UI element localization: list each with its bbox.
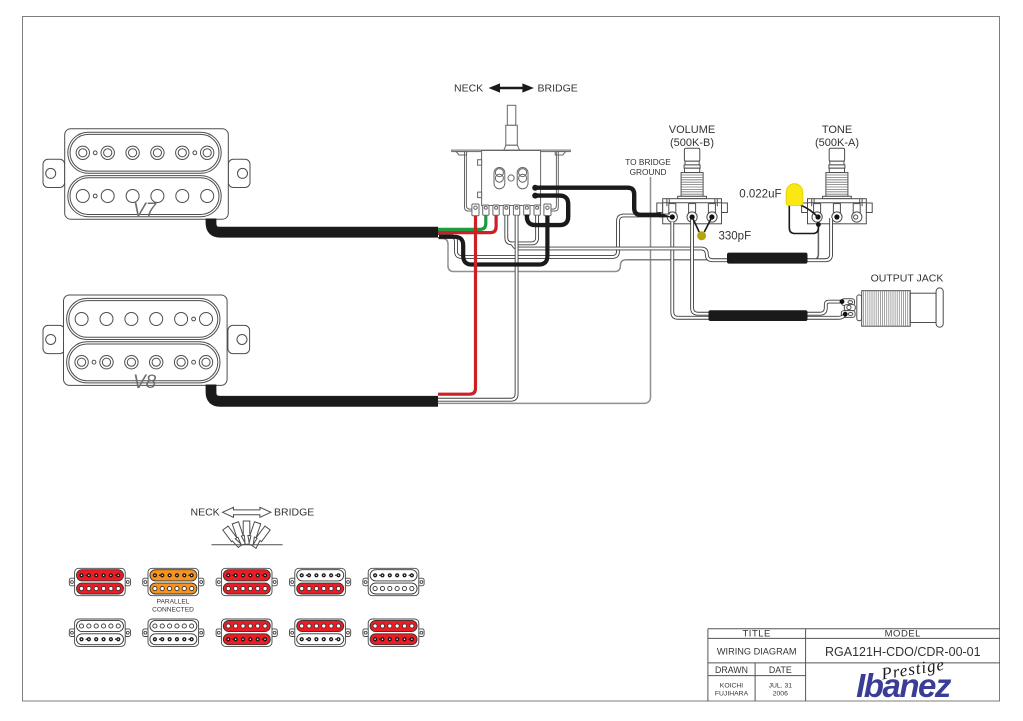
- capacitor 330pF: [692, 217, 712, 240]
- wire red: V7 red to lug3: [438, 216, 496, 233]
- svg-text:OUTPUT JACK: OUTPUT JACK: [871, 273, 944, 285]
- svg-text:GROUND: GROUND: [630, 167, 667, 177]
- svg-text:DATE: DATE: [769, 665, 792, 675]
- mini pickup row2 pos2 (white/white): [143, 619, 204, 646]
- capacitor 0.022uF: [786, 184, 818, 234]
- svg-text:KOICHI: KOICHI: [720, 683, 744, 690]
- wire white: switch lug5 to V8 white: [438, 216, 517, 400]
- svg-text:PARALLEL: PARALLEL: [157, 599, 190, 606]
- mini pickup row1 pos3 (red/red): [216, 568, 277, 595]
- svg-text:0.022uF: 0.022uF: [739, 189, 781, 201]
- wire white: switch lug4-lug7 jumper: [506, 216, 537, 244]
- title block: [708, 629, 1000, 701]
- wire black: switch dot2 to lug6: [527, 196, 568, 226]
- mini pickup row2 pos1 (white/white): [69, 619, 130, 646]
- svg-text:330pF: 330pF: [719, 231, 752, 243]
- svg-text:V8: V8: [133, 372, 157, 393]
- wire red: V8 red to lug1: [438, 216, 476, 395]
- svg-text:DRAWN: DRAWN: [715, 665, 748, 675]
- Ibanez Prestige logo: [856, 655, 952, 704]
- wire white: switch to tone lug2 via sleeve: [512, 218, 831, 260]
- switch body: [452, 105, 571, 211]
- volume pot: [657, 148, 728, 224]
- svg-text:(500K-B): (500K-B): [670, 137, 714, 149]
- wire black: V7 black to switch lug8: [439, 216, 547, 265]
- mini pickup row2 pos4 (red/white): [290, 619, 351, 646]
- arrow neck-bridge (top, filled): [489, 83, 534, 92]
- output jack: [841, 288, 943, 327]
- mini pickup row2 pos5 (red/red): [363, 619, 424, 646]
- switch position fan: [212, 521, 283, 549]
- svg-text:2006: 2006: [773, 691, 788, 698]
- svg-text:MODEL: MODEL: [885, 628, 921, 639]
- svg-text:BRIDGE: BRIDGE: [538, 83, 578, 95]
- cable sleeve to jack: [709, 310, 808, 321]
- wire white: volume casing ground to jack sleeve: [672, 222, 845, 318]
- cable from V8: [211, 385, 438, 402]
- svg-text:FUJIHARA: FUJIHARA: [715, 691, 749, 698]
- svg-text:V7: V7: [133, 200, 158, 221]
- mini pickup row1 pos2 (orange/orange): [143, 568, 204, 595]
- wire gray: bridge ground / V8 shield: [438, 177, 651, 403]
- wire gray: ground bus to tone casing: [813, 225, 819, 260]
- svg-text:JUL. 31: JUL. 31: [769, 683, 793, 690]
- svg-text:TITLE: TITLE: [743, 628, 771, 639]
- pickup V8: [43, 295, 250, 393]
- mini pickup row1 pos5 (white/white): [363, 568, 424, 595]
- tone pot: [802, 148, 873, 224]
- svg-text:RGA121H-CDO/CDR-00-01: RGA121H-CDO/CDR-00-01: [825, 645, 981, 659]
- jack lug dots: [840, 299, 845, 304]
- svg-text:TONE: TONE: [822, 124, 852, 136]
- svg-text:VOLUME: VOLUME: [669, 124, 715, 136]
- svg-text:BRIDGE: BRIDGE: [274, 507, 314, 519]
- wire white: V7 white to volume lug1: [438, 216, 670, 258]
- cable from V7: [211, 219, 438, 233]
- legend NECK-BRIDGE (bottom): [191, 507, 315, 519]
- wire black: switch dot1 to volume casing: [535, 188, 661, 215]
- svg-text:WIRING DIAGRAM: WIRING DIAGRAM: [717, 647, 797, 657]
- svg-text:CONNECTED: CONNECTED: [152, 607, 194, 614]
- cable sleeve volume-tone: [727, 253, 808, 264]
- svg-text:TO BRIDGE: TO BRIDGE: [625, 157, 671, 167]
- mini pickup row2 pos3 (red/red): [216, 619, 277, 646]
- arrow outline (bottom): [223, 507, 271, 517]
- switch lugs: [472, 204, 551, 216]
- mini pickup row1 pos4 (white/red): [290, 568, 351, 595]
- svg-text:NECK: NECK: [191, 507, 220, 519]
- pickup V7: [43, 129, 250, 221]
- label NECK-BRIDGE (top): [454, 83, 578, 95]
- mini pickup row1 pos1 (red/red): [69, 568, 130, 595]
- svg-text:(500K-A): (500K-A): [815, 137, 859, 149]
- svg-text:NECK: NECK: [454, 83, 483, 95]
- wire green: V7 green to lug2: [438, 216, 486, 230]
- wire white: volume lug2 to jack tip: [692, 218, 842, 314]
- pot lug dots: [670, 214, 675, 219]
- wire gray: V7 shield to ground bus: [438, 239, 626, 272]
